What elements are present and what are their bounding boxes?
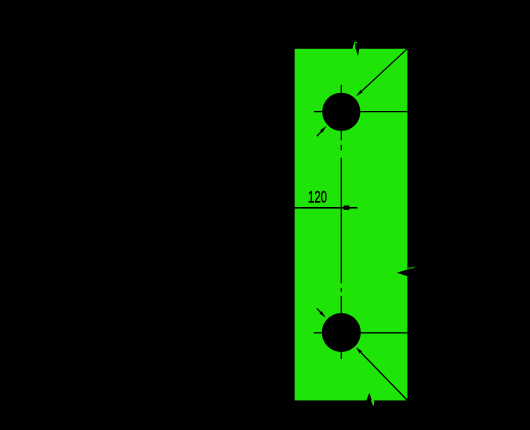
bottom edge marker (black arrow above edge) (366, 393, 372, 401)
arrowhead L4 (319, 311, 325, 318)
right edge marker (black arrow into face) (397, 269, 409, 276)
hole H2 (lower) (322, 313, 361, 352)
arrowhead L1 (356, 90, 363, 96)
leader L2 (upper, short lower-left) (317, 132, 322, 137)
dimension line 120 (295, 207, 358, 209)
hole H1 (upper) (322, 93, 360, 131)
top edge marker (black arrow below edge) (356, 49, 359, 57)
leader L4 (lower, short upper-left) (317, 308, 321, 312)
right edge marker (dark green tail outside) (408, 267, 415, 268)
extension line from H1 to right edge (360, 111, 407, 113)
arrowhead L2 (320, 126, 326, 133)
arrowhead L3 (356, 347, 362, 354)
center mark H2 (314, 296, 342, 359)
leader L1 (upper, from top-right corner) (362, 49, 408, 91)
extension line from H2 to right edge (361, 332, 408, 334)
part face (green plate) (295, 49, 408, 401)
top edge marker (green arrow above edge) (352, 41, 355, 50)
vertical dash-dot centerline (340, 145, 342, 292)
top edge marker dot (355, 42, 357, 44)
leader L3 (lower, through bottom-right corner) (361, 353, 409, 403)
bottom edge marker (green arrow below edge) (371, 400, 375, 407)
svg-text:120: 120 (308, 189, 327, 207)
center mark H1 (314, 85, 341, 140)
dimension box terminator (344, 206, 350, 210)
